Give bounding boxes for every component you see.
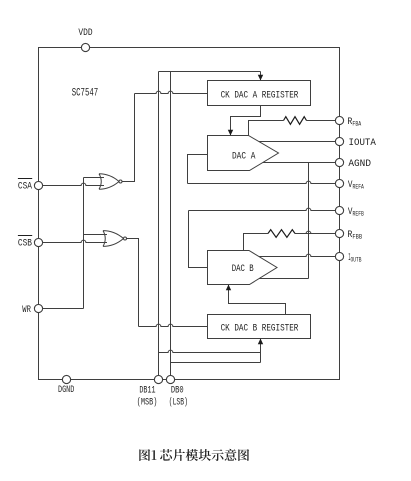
- pin CSA: [34, 181, 42, 189]
- svg-text:CK DAC A REGISTER: CK DAC A REGISTER: [221, 91, 299, 102]
- pin RFBB: [335, 229, 343, 237]
- svg-text:DB11: DB11: [139, 386, 155, 397]
- wire register A to DAC A: [231, 106, 261, 136]
- wire DAC B to IOUTB: [259, 254, 336, 256]
- caption 图1 芯片模块示意图: [139, 449, 249, 461]
- resistor feedback A: [307, 120, 336, 122]
- svg-text:CSA: CSA: [18, 182, 32, 193]
- pin CSB: [34, 238, 42, 246]
- pin IOUTB: [335, 252, 343, 260]
- pin DB11 (MSB): [154, 375, 162, 383]
- wire DAC A to IOUTA: [259, 141, 336, 143]
- bus bottom wires to CK DAC B REGISTER: [159, 350, 261, 352]
- svg-text:DAC B: DAC B: [232, 264, 254, 275]
- bus top wire to CK DAC A REGISTER: [159, 71, 261, 73]
- svg-text:(LSB): (LSB): [169, 396, 188, 408]
- svg-text:DB0: DB0: [171, 386, 184, 397]
- pin VREFB: [335, 206, 343, 214]
- register box CK DAC B REGISTER: [208, 315, 311, 339]
- svg-text:WR: WR: [22, 305, 31, 316]
- pin DB0 (LSB): [166, 375, 174, 383]
- wire VREFA to DAC A: [188, 155, 208, 184]
- svg-text:CK DAC B REGISTER: CK DAC B REGISTER: [221, 323, 299, 334]
- WR common line: [43, 308, 84, 310]
- NOR gate U1 (CSA+WR): [84, 177, 105, 179]
- register box CK DAC A REGISTER: [208, 81, 311, 106]
- NOR gate U2 (CSB+WR): [84, 234, 108, 236]
- pin WR: [34, 304, 42, 312]
- pin RFBA: [335, 116, 343, 124]
- DAC B: [208, 251, 278, 285]
- pin AGND: [335, 158, 343, 166]
- svg-text:CSB: CSB: [18, 239, 32, 250]
- svg-text:DGND: DGND: [58, 385, 74, 396]
- data bus line DB11: [158, 72, 160, 376]
- svg-text:DAC A: DAC A: [232, 152, 255, 163]
- svg-text:AGND: AGND: [348, 159, 371, 170]
- outer chip boundary box: [39, 48, 340, 380]
- svg-text:(MSB): (MSB): [137, 396, 158, 408]
- pin VDD: [81, 43, 89, 51]
- resistor feedback B: [295, 231, 336, 233]
- wire NOR2 output to register B: [127, 239, 139, 327]
- pin IOUTA: [335, 137, 343, 145]
- wire DAC A to AGND: [263, 162, 336, 164]
- svg-text:IOUTA: IOUTA: [349, 138, 376, 149]
- wire AGND to DAC B lower edge: [308, 163, 310, 279]
- svg-text:SC7547: SC7547: [72, 87, 99, 99]
- data bus line DB0: [170, 72, 172, 376]
- wire VREFB to DAC B: [189, 208, 336, 210]
- svg-text:VDD: VDD: [78, 28, 92, 39]
- DAC A: [208, 136, 279, 171]
- pin DGND: [62, 375, 70, 383]
- wire NOR1 output to register A: [122, 94, 135, 182]
- wire register B to DAC B: [229, 285, 286, 315]
- pin VREFA: [335, 179, 343, 187]
